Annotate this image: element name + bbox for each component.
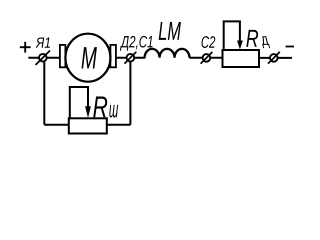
inductor LM <box>145 49 190 58</box>
wire: shunt branch left vertical <box>43 58 45 125</box>
label Д2,С1 <box>120 36 153 51</box>
rheostat RШ wiper bracket <box>70 87 88 118</box>
label С2 <box>202 36 216 48</box>
wire: supply to motor left brush <box>28 57 60 59</box>
label RШ - ш subscript <box>109 105 118 118</box>
connector at minus end <box>268 52 280 64</box>
wire: inductor to C2 <box>189 57 222 59</box>
label RД - д subscript <box>262 36 270 48</box>
wire: right brush to Д2,С1 <box>116 57 145 59</box>
label RШ - R <box>93 96 107 117</box>
rheostat RД wiper arrowhead <box>237 41 243 50</box>
motor M armature with brushes <box>60 34 116 82</box>
rheostat RШ wiper arrowhead <box>85 106 91 118</box>
label LM <box>159 22 181 40</box>
resistor RШ (rheostat body) <box>69 118 107 133</box>
connector Я1 <box>36 51 50 65</box>
wire: RД to minus terminal <box>259 57 292 59</box>
label M (motor) <box>81 47 96 68</box>
plus terminal <box>20 42 31 53</box>
rheostat RД wiper bracket <box>224 21 240 50</box>
resistor RД (rheostat body) <box>223 50 260 67</box>
label Я1 <box>36 37 50 47</box>
label RД - R <box>246 30 258 47</box>
connector Д2,С1 <box>125 52 137 64</box>
wire: shunt branch bottom rail <box>44 124 130 126</box>
connector C2 <box>201 52 213 64</box>
minus terminal <box>286 46 294 48</box>
wire: shunt branch right vertical <box>129 58 131 125</box>
